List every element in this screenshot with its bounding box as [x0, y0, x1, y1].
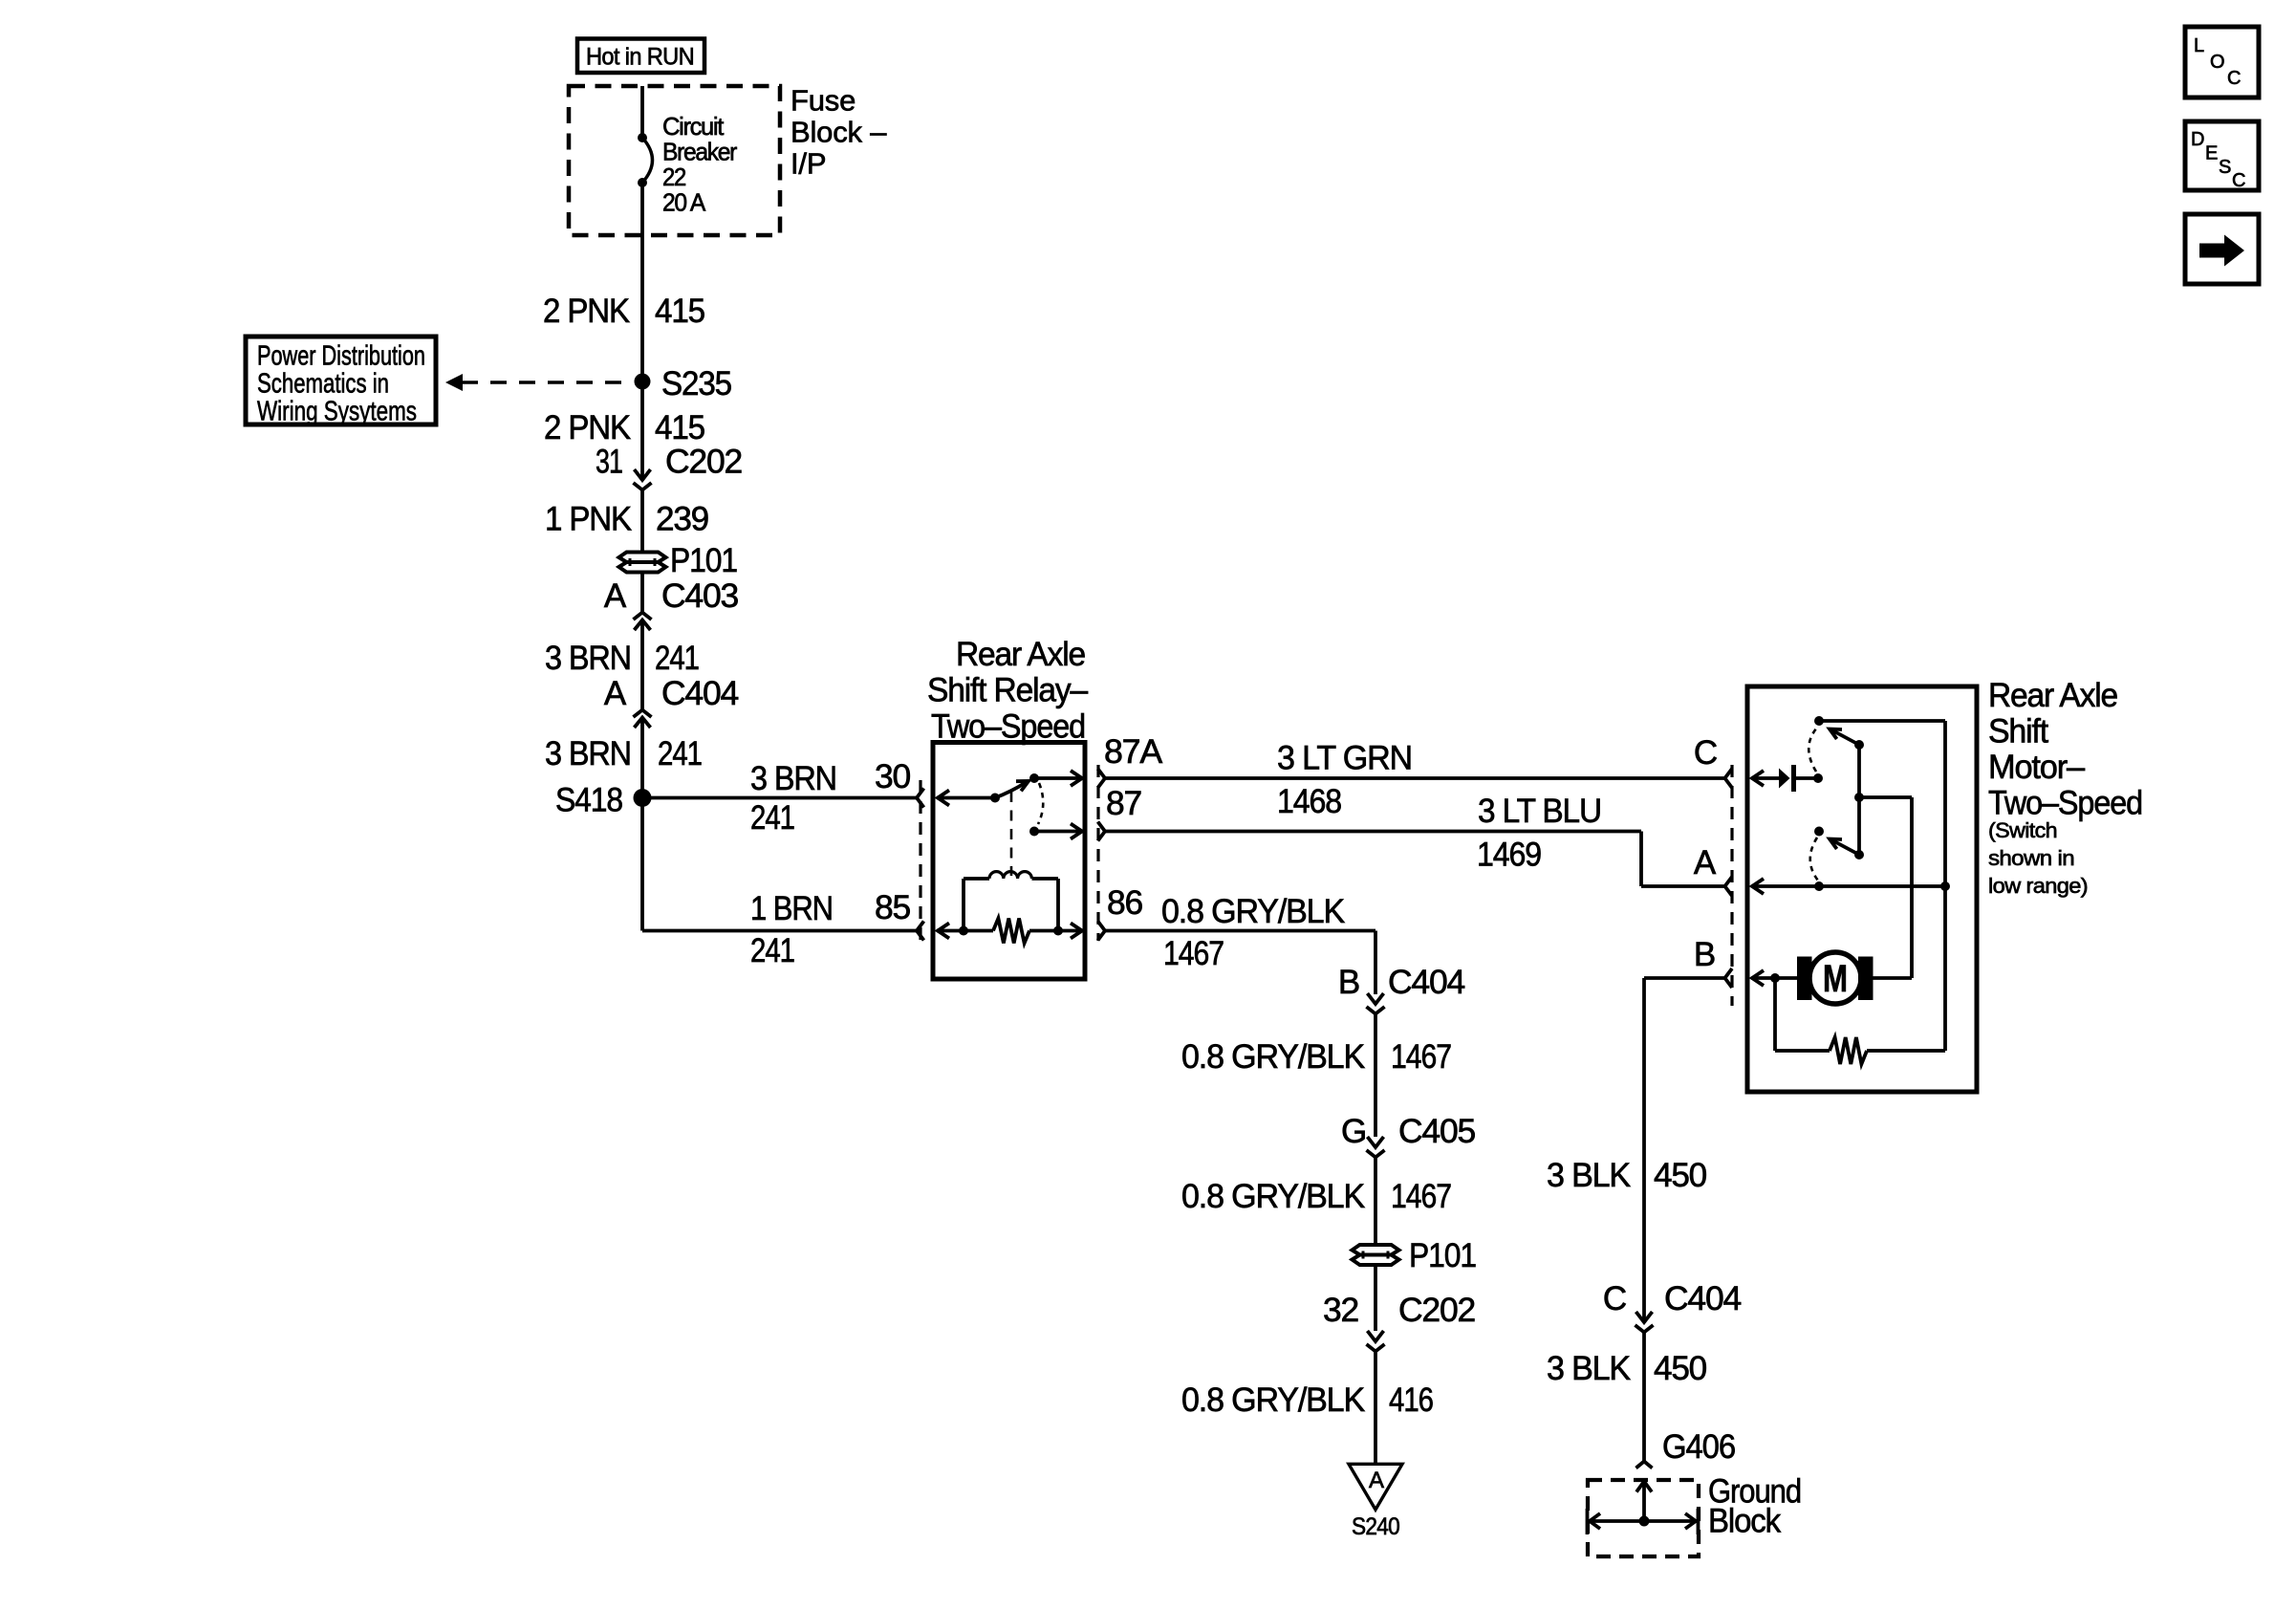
motor pin B terminal arrow [1751, 976, 1797, 980]
svg-text:S235: S235 [661, 365, 731, 402]
wire circuit breaker to S235 [640, 183, 644, 381]
svg-text:0.8 GRY/BLK: 0.8 GRY/BLK [1161, 893, 1345, 930]
svg-text:3 BLK: 3 BLK [1547, 1157, 1631, 1194]
svg-text:31: 31 [596, 444, 622, 481]
relay contact 87 [1029, 827, 1039, 837]
right bus vertical [1943, 721, 1947, 1051]
svg-text:0.8 GRY/BLK: 0.8 GRY/BLK [1181, 1038, 1365, 1076]
svg-text:2 PNK: 2 PNK [544, 409, 631, 446]
svg-text:P101: P101 [1409, 1237, 1476, 1274]
connector chevron pin C [1725, 769, 1733, 788]
motor pin A terminal arrow [1751, 884, 1945, 888]
svg-text:3 BRN: 3 BRN [750, 760, 836, 797]
svg-text:G406: G406 [1662, 1428, 1735, 1466]
upper switch contact [1814, 716, 1824, 726]
wire 450 3 BLK (motor B to ground) [1644, 976, 1725, 980]
svg-text:G: G [1341, 1113, 1366, 1150]
wire P101 to connector C403 [640, 572, 644, 613]
svg-text:415: 415 [655, 293, 704, 330]
wire C202 to P101 [640, 490, 644, 553]
svg-text:87: 87 [1106, 785, 1141, 822]
next-page arrow box [2185, 214, 2259, 284]
svg-text:85: 85 [875, 889, 910, 926]
fuse block dashed box [569, 86, 780, 235]
svg-text:3 BLK: 3 BLK [1547, 1350, 1631, 1387]
connector chevron pin 87A [1098, 769, 1106, 788]
relay contact 87A [1029, 773, 1039, 783]
svg-text:450: 450 [1654, 1350, 1707, 1387]
relay pin 87 terminal arrow [1034, 830, 1081, 834]
diode [1779, 769, 1790, 789]
svg-text:32: 32 [1323, 1292, 1358, 1329]
switch contact node (diode side) [1813, 773, 1823, 783]
svg-text:C202: C202 [1398, 1292, 1475, 1329]
svg-text:I/P: I/P [791, 147, 826, 181]
relay dashed connector line right [1096, 765, 1099, 941]
svg-text:Circuit: Circuit [662, 112, 725, 141]
svg-text:1 PNK: 1 PNK [545, 501, 632, 538]
svg-text:P101: P101 [670, 542, 737, 579]
svg-text:22: 22 [662, 163, 686, 191]
wire upper contact to right bus [1819, 719, 1945, 723]
motor armature M [1809, 952, 1861, 1004]
svg-text:S240: S240 [1352, 1513, 1399, 1540]
svg-text:Breaker: Breaker [662, 138, 738, 166]
svg-text:86: 86 [1107, 884, 1142, 922]
svg-text:A: A [604, 675, 627, 712]
label box Hot in RUN [577, 39, 704, 74]
svg-text:20 A: 20 A [662, 188, 706, 217]
relay box Rear Axle Shift Relay [933, 743, 1085, 980]
svg-text:C404: C404 [1664, 1280, 1742, 1317]
svg-text:C202: C202 [665, 444, 742, 481]
svg-text:Wiring Sysytems: Wiring Sysytems [257, 397, 417, 427]
wire C403 to C404 [640, 620, 644, 710]
svg-text:1467: 1467 [1391, 1178, 1451, 1215]
junction right bus / A wire [1940, 881, 1950, 891]
grommet P101 [619, 553, 666, 563]
relay switch blade [995, 783, 1026, 798]
lower switch contact [1814, 827, 1824, 837]
wire S418 to relay pin 30 [642, 796, 917, 800]
svg-text:1467: 1467 [1163, 935, 1224, 972]
svg-text:C405: C405 [1398, 1113, 1475, 1150]
svg-text:Fuse: Fuse [791, 84, 856, 118]
svg-text:1468: 1468 [1277, 783, 1341, 820]
svg-text:30: 30 [875, 758, 911, 795]
svg-text:Shift Relay–: Shift Relay– [927, 672, 1089, 709]
wire S418 down and to relay pin 85 [640, 798, 644, 931]
wire 1469 3 LT BLU (87 to motor A) [1105, 830, 1641, 834]
svg-text:C: C [1694, 734, 1717, 772]
svg-text:low range): low range) [1988, 874, 2088, 898]
LOC box [2185, 27, 2259, 98]
svg-text:S418: S418 [555, 782, 622, 819]
wire from Hot in RUN into fuse block [640, 86, 644, 138]
reference box Power Distribution Schematics [246, 337, 436, 424]
svg-text:241: 241 [658, 735, 702, 772]
svg-text:C: C [2227, 68, 2241, 89]
svg-text:Rear Axle: Rear Axle [1988, 677, 2117, 714]
svg-text:A: A [604, 577, 627, 615]
wire 1467 0.8 GRY/BLK (86 down the middle) [1105, 929, 1375, 933]
relay contact travel dashed arc [1038, 783, 1043, 824]
dashed travel arc lower [1810, 838, 1818, 881]
svg-text:3 LT GRN: 3 LT GRN [1277, 740, 1412, 777]
svg-text:Two–Speed: Two–Speed [1988, 785, 2142, 822]
upper switch blade [1832, 730, 1859, 745]
svg-text:3 LT BLU: 3 LT BLU [1478, 793, 1601, 830]
pivot junction to motor + [1854, 793, 1864, 802]
connector chevron pin 85 [917, 922, 924, 941]
svg-text:0.8 GRY/BLK: 0.8 GRY/BLK [1181, 1382, 1365, 1419]
wire S235 to connector C202 [640, 381, 644, 480]
wire C404 to S418 [640, 718, 644, 798]
svg-text:L: L [2194, 35, 2204, 56]
svg-text:239: 239 [656, 501, 708, 538]
svg-text:Block: Block [1708, 1503, 1782, 1540]
node S418 [634, 789, 652, 807]
relay pin 30 terminal arrow [937, 796, 995, 800]
svg-text:D: D [2191, 129, 2204, 150]
motor dashed connector line [1730, 765, 1733, 1006]
dashed travel arc upper [1809, 728, 1817, 772]
relay dashed connector line left [919, 780, 921, 941]
svg-text:Rear Axle: Rear Axle [956, 636, 1085, 673]
svg-text:C: C [2232, 170, 2245, 191]
svg-text:416: 416 [1389, 1382, 1433, 1419]
DESC box [2185, 121, 2259, 190]
svg-text:C: C [1603, 1280, 1626, 1317]
svg-text:B: B [1694, 936, 1715, 973]
lower switch pivot [1854, 850, 1864, 859]
svg-text:shown in: shown in [1988, 846, 2074, 870]
motor box Rear Axle Shift Motor [1747, 686, 1977, 1092]
svg-text:450: 450 [1654, 1157, 1707, 1194]
svg-text:A: A [1694, 844, 1717, 881]
svg-text:A: A [1369, 1468, 1384, 1493]
svg-text:1 BRN: 1 BRN [750, 890, 833, 927]
svg-text:S: S [2219, 157, 2231, 178]
lower switch blade [1832, 840, 1859, 855]
svg-text:241: 241 [655, 640, 699, 677]
node S235 [635, 374, 651, 390]
wire 1468 3 LT GRN (87A to motor C) [1105, 776, 1725, 780]
junction B wire [1770, 973, 1780, 983]
relay resistor [993, 919, 1029, 944]
svg-text:3 BRN: 3 BRN [545, 735, 631, 772]
svg-text:Block –: Block – [791, 116, 887, 149]
relay pin 87A terminal arrow [1034, 776, 1081, 780]
ground block dashed box [1588, 1480, 1699, 1556]
connector chevron pin A [1725, 877, 1733, 896]
ground block internal arrows [1642, 1483, 1646, 1521]
relay actuator dashed link [1010, 792, 1013, 876]
svg-text:0.8 GRY/BLK: 0.8 GRY/BLK [1181, 1178, 1365, 1215]
svg-text:Shift: Shift [1988, 713, 2048, 751]
junction A wire / travel arc [1814, 881, 1824, 891]
relay switch common node [990, 794, 1000, 803]
motor pin C terminal arrow [1751, 776, 1779, 780]
circuit breaker 22 20A [638, 133, 647, 142]
relay pin 85 terminal arrow [937, 929, 993, 933]
switch pivot bus [1854, 740, 1864, 750]
connector chevron pin 86 [1098, 922, 1106, 941]
svg-text:B: B [1338, 964, 1359, 1001]
svg-text:241: 241 [750, 932, 794, 969]
motor internal resistor path [1773, 978, 1777, 1051]
svg-text:E: E [2205, 143, 2218, 164]
splice ground ref triangle S240 [1349, 1464, 1402, 1510]
svg-text:Power Distribution: Power Distribution [257, 341, 425, 372]
dashed reference arrow to Power Distribution [462, 381, 627, 383]
svg-text:(Switch: (Switch [1988, 818, 2057, 842]
svg-text:C403: C403 [661, 577, 738, 615]
svg-text:C404: C404 [661, 675, 739, 712]
svg-text:3 BRN: 3 BRN [545, 640, 631, 677]
svg-text:C404: C404 [1388, 964, 1465, 1001]
svg-text:1467: 1467 [1391, 1038, 1451, 1076]
svg-text:M: M [1823, 958, 1848, 1000]
svg-text:Hot in RUN: Hot in RUN [586, 44, 694, 71]
svg-text:241: 241 [750, 799, 794, 837]
connector chevron pin B [1725, 968, 1733, 988]
svg-text:2 PNK: 2 PNK [543, 293, 630, 330]
grommet P101 (floor pan) [1374, 1233, 1377, 1245]
relay pin 86 terminal arrow [1029, 929, 1081, 933]
svg-text:1469: 1469 [1477, 837, 1541, 874]
connector chevron pin 30 [917, 789, 924, 808]
svg-text:415: 415 [655, 409, 704, 446]
svg-text:Motor–: Motor– [1988, 749, 2086, 786]
connector chevron pin 87 [1098, 822, 1106, 841]
svg-text:O: O [2210, 52, 2224, 73]
svg-text:87A: 87A [1104, 733, 1163, 771]
svg-text:Two–Speed: Two–Speed [931, 708, 1085, 746]
svg-text:Schematics in: Schematics in [257, 369, 389, 400]
relay coil [962, 879, 965, 931]
